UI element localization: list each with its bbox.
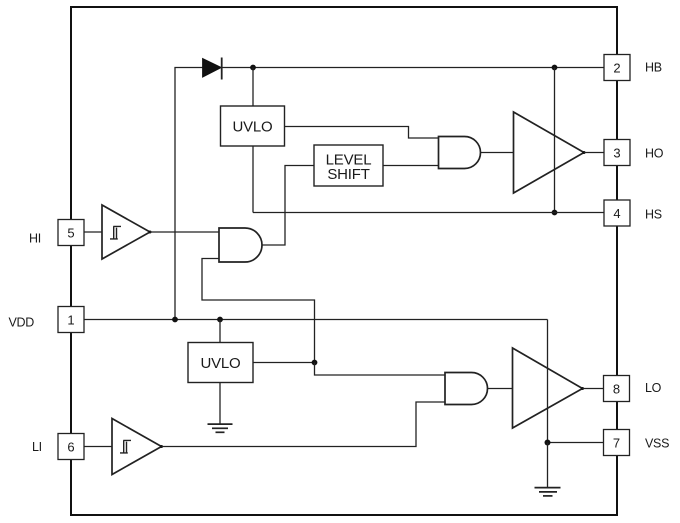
wire: AND U2 bottom input from interlock net bbox=[202, 259, 315, 363]
wire: UVLO2 output to interlock node bbox=[253, 362, 315, 364]
wire: AND U3 output to HO driver bbox=[481, 152, 514, 154]
node: LO driver output tip bbox=[581, 387, 584, 390]
node: HB-UVLO junction bbox=[250, 65, 256, 71]
op-amp: LO driver triangle bbox=[513, 348, 583, 428]
svg-text:3: 3 bbox=[613, 146, 620, 161]
pin 7 box bbox=[604, 430, 630, 456]
ground: below UVLO2 bbox=[208, 383, 233, 433]
node: HO driver output tip bbox=[583, 151, 586, 154]
svg-text:2: 2 bbox=[613, 61, 620, 76]
schmitt buffer U1 (HI input) bbox=[102, 205, 150, 259]
svg-text:LO: LO bbox=[645, 381, 662, 395]
svg-text:HI: HI bbox=[29, 232, 41, 246]
UVLO U1 (high side) bbox=[221, 106, 285, 146]
svg-text:HB: HB bbox=[645, 61, 662, 75]
svg-text:UVLO: UVLO bbox=[232, 119, 272, 136]
wire: buffer U1 output to AND U2 top input bbox=[150, 231, 219, 233]
wire: interlock node to AND U5 top input bbox=[315, 363, 446, 376]
node: buffer U1 output tip bbox=[149, 231, 152, 234]
wire: diode anode bend from VDD riser to diode bbox=[175, 68, 203, 320]
svg-text:HS: HS bbox=[645, 208, 662, 222]
wire: VSS rail from pin 7 bbox=[548, 442, 605, 444]
op-amp: HO driver triangle bbox=[514, 112, 585, 193]
pin 2 box bbox=[604, 55, 630, 81]
wire: LO driver to pin 8 bbox=[583, 388, 605, 390]
pin 5 box bbox=[58, 220, 84, 246]
AND gate U5 (low side) bbox=[445, 373, 488, 405]
svg-text:1: 1 bbox=[67, 313, 74, 328]
wire: VDD junction down to UVLO2 bbox=[219, 320, 221, 343]
wire: LEVEL SHIFT output to AND U3 bottom input bbox=[383, 165, 439, 167]
svg-text:VDD: VDD bbox=[9, 316, 35, 330]
IC boundary box bbox=[71, 7, 617, 515]
node: interlock junction bbox=[312, 360, 318, 366]
pin 4 box bbox=[604, 200, 630, 226]
node: VSS / ground junction bbox=[545, 440, 551, 446]
svg-text:HO: HO bbox=[645, 147, 664, 161]
pin 1 box bbox=[58, 307, 84, 333]
svg-text:4: 4 bbox=[613, 206, 620, 221]
node: HS rail junction bbox=[552, 210, 558, 216]
svg-text:VSS: VSS bbox=[645, 437, 669, 451]
wire: buffer U6 output to AND U5 bottom input bbox=[162, 402, 446, 447]
diode D1 bbox=[203, 58, 222, 80]
ground: below VSS node bbox=[535, 443, 561, 496]
pin 3 box bbox=[604, 140, 630, 166]
svg-text:SHIFT: SHIFT bbox=[327, 166, 369, 183]
node: VDD / diode riser junction bbox=[172, 317, 178, 323]
pin 6 box bbox=[58, 434, 84, 460]
AND gate U2 (HI side) bbox=[219, 228, 262, 262]
svg-text:UVLO: UVLO bbox=[200, 355, 240, 372]
wire: UVLO1 bottom to HS rail bbox=[252, 146, 254, 213]
wire: HB rail from diode cathode to pin 2 bbox=[222, 67, 605, 69]
svg-text:LI: LI bbox=[32, 440, 42, 454]
wire: junction down to UVLO1 top bbox=[252, 68, 254, 107]
wire: riser from HB rail down to HS rail bbox=[554, 68, 556, 213]
svg-text:7: 7 bbox=[613, 436, 620, 451]
node: HB rail / HS riser junction bbox=[552, 65, 558, 71]
wire: pin 6 to buffer U6 bbox=[84, 446, 112, 448]
svg-text:8: 8 bbox=[613, 382, 620, 397]
node: VDD / UVLO2 junction bbox=[217, 317, 223, 323]
AND gate U3 (high side) bbox=[439, 137, 481, 169]
wire: pin 5 to buffer U1 bbox=[84, 231, 102, 233]
svg-text:5: 5 bbox=[67, 226, 74, 241]
wire: UVLO1 output to AND U3 top input bbox=[285, 127, 439, 139]
wire: HS rail bbox=[253, 212, 604, 214]
wire: VDD rail down through LO driver to VSS node bbox=[547, 320, 549, 443]
UVLO U4 (low side) bbox=[188, 343, 253, 383]
node: buffer U6 output tip bbox=[160, 445, 163, 448]
pin 8 box bbox=[604, 376, 630, 402]
svg-text:6: 6 bbox=[67, 440, 74, 455]
wire: AND U2 output up to LEVEL SHIFT input bbox=[262, 166, 314, 246]
LEVEL SHIFT block bbox=[314, 145, 383, 186]
schmitt buffer U6 (LI input) bbox=[112, 419, 162, 475]
wire: VDD rail from pin 1 bbox=[84, 319, 548, 321]
wire: AND U5 output to LO driver bbox=[488, 388, 513, 390]
wire: HO driver to pin 3 bbox=[584, 152, 604, 154]
